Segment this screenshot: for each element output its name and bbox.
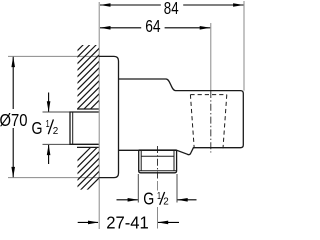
wall opening top edge xyxy=(77,108,99,110)
inlet fitting xyxy=(70,112,99,144)
nipple right extension line (G1/2) xyxy=(176,174,178,203)
dimension G1/2 nipple line xyxy=(117,199,197,201)
wall opening bottom edge xyxy=(77,146,99,148)
holder cup hidden cone right xyxy=(223,95,227,149)
dimension 27-41 arrowheads xyxy=(88,221,99,225)
dimension 64 line xyxy=(100,27,210,29)
holder cup hidden rim xyxy=(190,94,226,96)
dimension 27-41 line xyxy=(78,221,179,223)
nipple left extension line (G1/2) xyxy=(137,174,139,203)
nipple centreline xyxy=(157,146,159,179)
escutcheon flange xyxy=(99,56,119,177)
nipple thread right line xyxy=(173,150,175,171)
svg-text:64: 64 xyxy=(145,16,160,36)
svg-text:1: 1 xyxy=(157,190,161,202)
body outline xyxy=(119,79,244,155)
dimension G1/2 nipple arrowheads xyxy=(128,198,139,202)
dimension O70 arrowheads xyxy=(11,56,15,67)
svg-text:27-41: 27-41 xyxy=(106,213,149,230)
svg-text:2: 2 xyxy=(53,125,59,137)
inlet bottom extension line (G1/2) xyxy=(43,143,71,145)
flange bottom extension line (O70) xyxy=(8,177,99,179)
dimension G1/2 inlet arrows xyxy=(48,93,50,165)
svg-text:1: 1 xyxy=(46,118,50,130)
inlet top extension line (G1/2) xyxy=(43,111,71,113)
inlet fitting thread line xyxy=(72,112,74,144)
flange top extension line (O70) xyxy=(8,55,99,57)
holder cup hidden cone left xyxy=(190,95,194,149)
dimension G1/2 nipple text xyxy=(143,189,169,209)
svg-text:2: 2 xyxy=(163,196,169,208)
holder cup centreline xyxy=(210,91,212,153)
outlet nipple xyxy=(139,150,177,173)
svg-text:G: G xyxy=(143,189,154,209)
wall hatching xyxy=(70,23,105,207)
nipple inner bottom line xyxy=(139,170,176,172)
dimension G1/2 inlet text xyxy=(32,118,59,138)
nipple thread left line xyxy=(140,150,142,171)
wall face extension line xyxy=(98,2,100,229)
holder centre extension line (64) xyxy=(210,23,212,91)
dimension 84 line xyxy=(100,4,243,6)
right extension line (84) xyxy=(243,1,245,91)
nipple centre extension line (27-41) xyxy=(157,181,159,191)
svg-text:Ø70: Ø70 xyxy=(0,110,28,130)
dimension 84 arrowheads xyxy=(100,3,111,7)
svg-text:84: 84 xyxy=(164,0,179,18)
nipple top line xyxy=(139,149,177,151)
nipple inner top line xyxy=(141,155,174,157)
dimension 64 arrowheads xyxy=(100,26,111,30)
svg-text:G: G xyxy=(32,118,43,138)
dimension O70 line xyxy=(12,57,14,177)
